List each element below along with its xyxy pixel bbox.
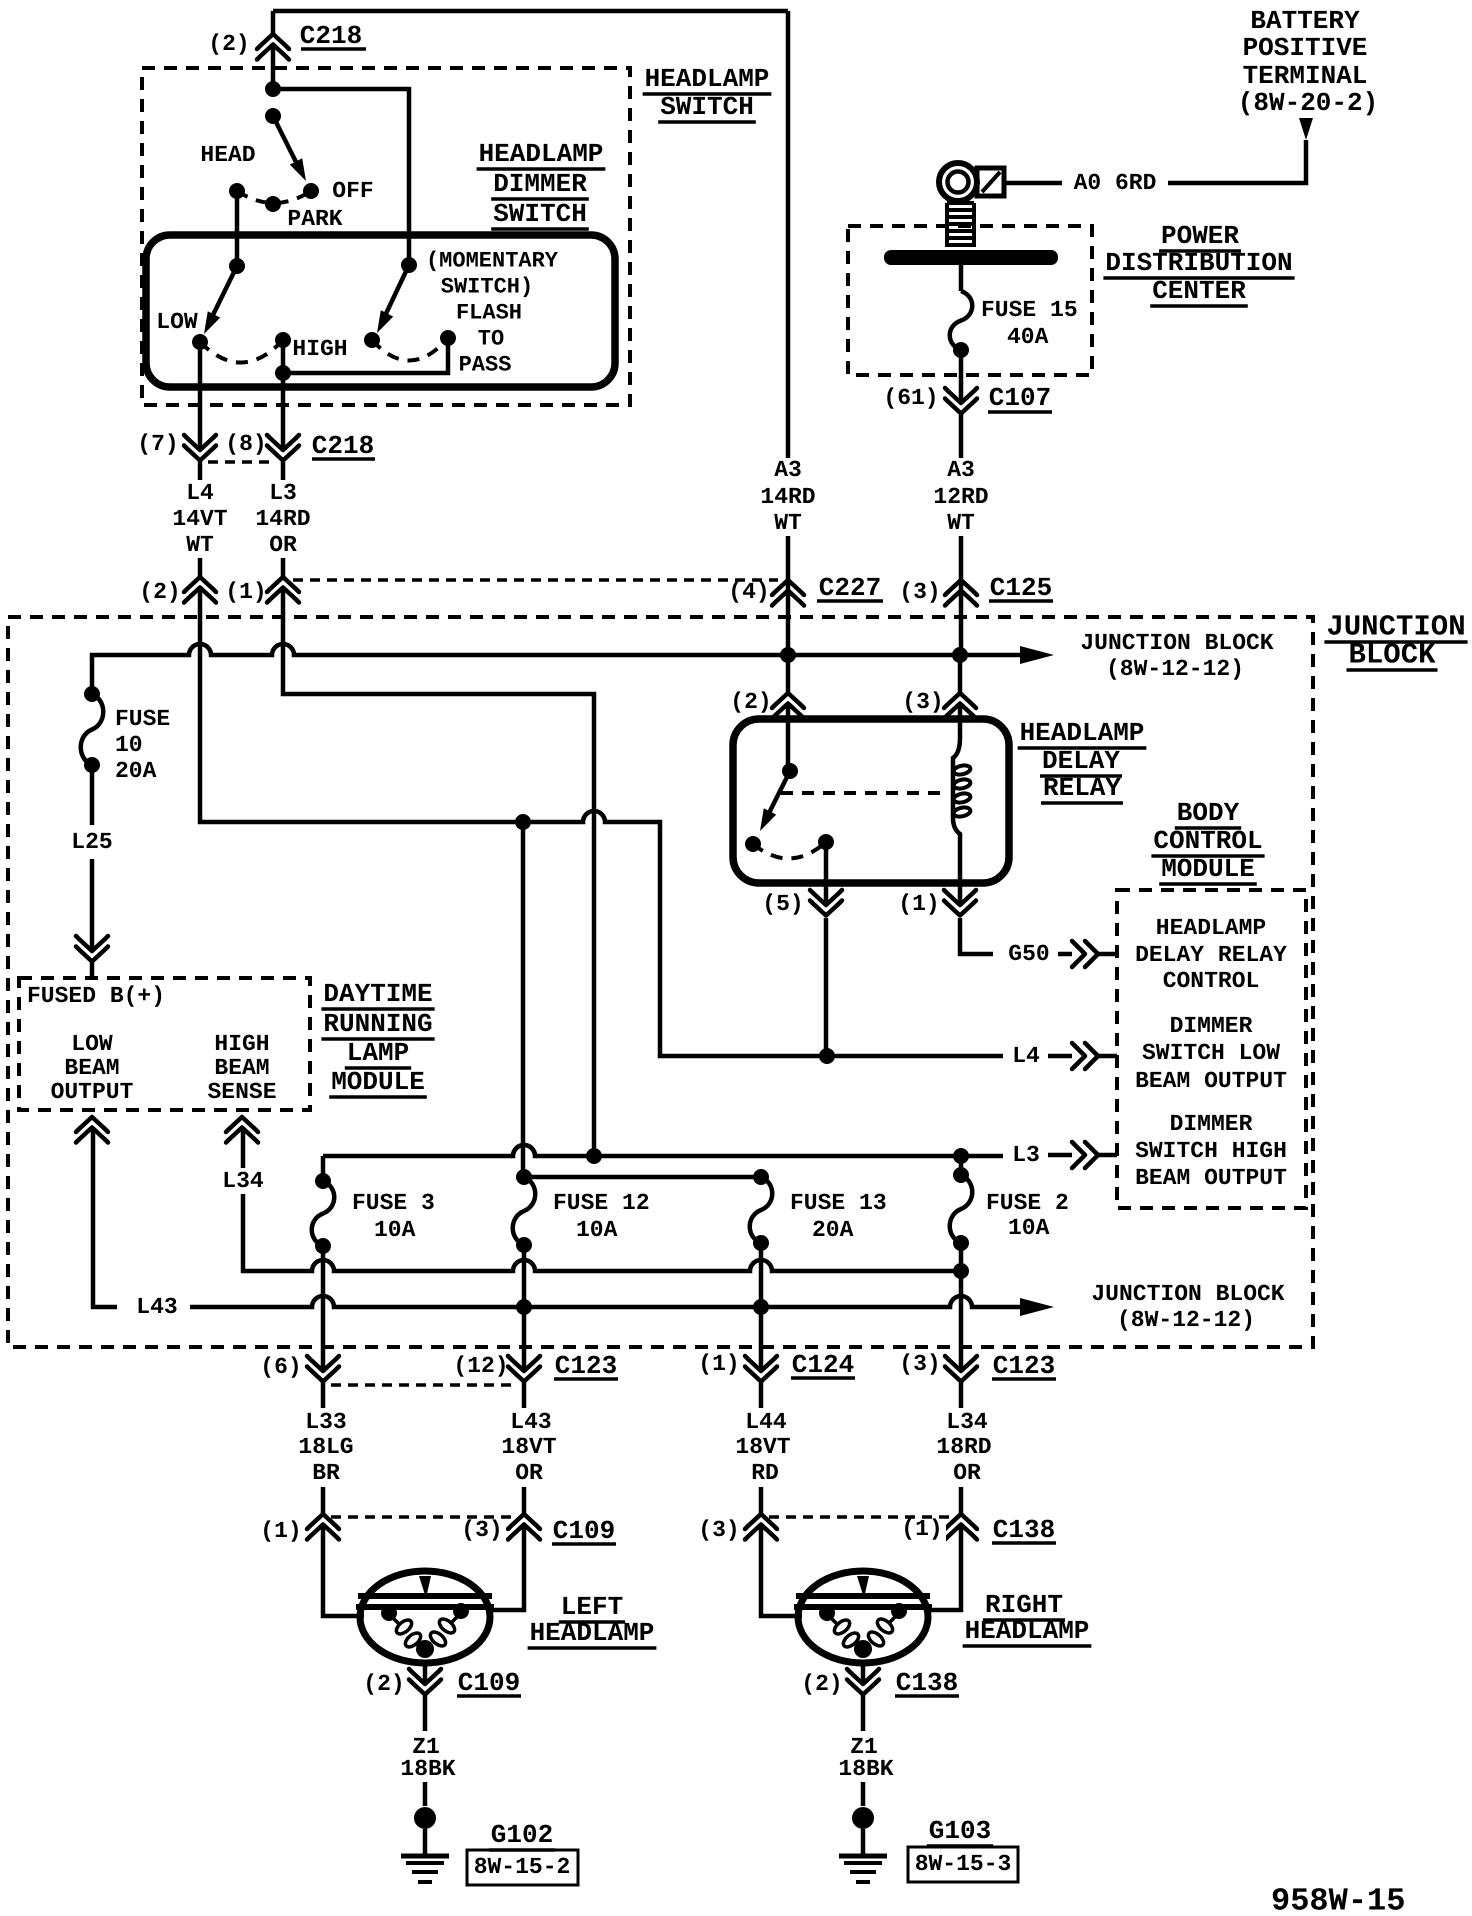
svg-text:18VT: 18VT — [735, 1434, 790, 1460]
svg-text:HEADLAMP: HEADLAMP — [1020, 718, 1145, 748]
connector (1) from relay — [958, 883, 963, 905]
svg-text:DELAY RELAY: DELAY RELAY — [1135, 942, 1287, 968]
connector (2) to relay — [772, 693, 804, 708]
contact OFF — [303, 183, 319, 199]
wire: C109(1) to left headlamp — [323, 1525, 364, 1616]
svg-text:A3: A3 — [947, 457, 975, 483]
svg-text:14RD: 14RD — [255, 506, 310, 532]
terminal tab — [977, 168, 1004, 196]
wire: fuse12-fuse13 top link — [524, 1175, 761, 1180]
contact PARK — [265, 196, 281, 212]
svg-text:G50: G50 — [1008, 941, 1049, 967]
fuse F10 20A — [81, 694, 104, 765]
svg-text:(5): (5) — [762, 891, 803, 917]
svg-text:12RD: 12RD — [933, 484, 988, 510]
svg-text:FUSE 2: FUSE 2 — [986, 1190, 1069, 1216]
svg-text:L43: L43 — [510, 1409, 551, 1435]
wire: C138(3) to right headlamp — [761, 1525, 802, 1616]
wire: A3 12RD WT — [959, 414, 964, 458]
svg-text:8W-15-3: 8W-15-3 — [915, 1851, 1012, 1877]
wire: relay coil feed (3) — [958, 655, 963, 693]
svg-text:DIMMER: DIMMER — [1170, 1013, 1253, 1039]
wire: L34 high beam sense run — [243, 1130, 961, 1271]
wire: fuse2 stub — [959, 1156, 964, 1175]
svg-text:SWITCH HIGH: SWITCH HIGH — [1135, 1138, 1287, 1164]
relay dashed contact arc — [753, 842, 826, 859]
dashed travel arc HEAD-PARK-OFF — [237, 191, 311, 203]
svg-text:CENTER: CENTER — [1152, 276, 1246, 306]
daytime running lamp module dashed box — [19, 978, 310, 1110]
node: L43 / fuse13 bottom — [753, 1299, 769, 1315]
svg-text:RUNNING: RUNNING — [323, 1009, 432, 1039]
svg-text:L33: L33 — [305, 1409, 346, 1435]
svg-text:DISTRIBUTION: DISTRIBUTION — [1105, 248, 1292, 278]
svg-text:SENSE: SENSE — [207, 1079, 276, 1105]
svg-text:CONTROL: CONTROL — [1153, 826, 1262, 856]
connector C123 (12) — [508, 1356, 540, 1371]
wire: HIGH to C218 pin 8 — [281, 340, 286, 450]
svg-text:HEADLAMP: HEADLAMP — [965, 1616, 1090, 1646]
relay blade — [766, 771, 790, 819]
svg-text:(1): (1) — [901, 1516, 942, 1542]
contact HEAD — [229, 183, 245, 199]
svg-text:958W-15: 958W-15 — [1271, 1883, 1405, 1916]
wire: branch to momentary switch — [273, 89, 409, 265]
connector C109 (3) — [508, 1514, 540, 1529]
body control module dashed box — [1117, 890, 1306, 1208]
svg-text:(2): (2) — [363, 1671, 404, 1697]
momentary blade — [382, 265, 409, 322]
svg-text:(1): (1) — [260, 1518, 301, 1544]
svg-text:JUNCTION BLOCK: JUNCTION BLOCK — [1080, 630, 1273, 656]
svg-text:DAYTIME: DAYTIME — [323, 979, 432, 1009]
svg-text:(6): (6) — [260, 1354, 301, 1380]
svg-text:40A: 40A — [1007, 324, 1049, 350]
wire: fuse2 to C123 — [959, 1243, 964, 1371]
svg-text:BLOCK: BLOCK — [1348, 639, 1436, 672]
fuse F15 40A — [950, 291, 973, 350]
node: L3 bus / fuse2 — [953, 1148, 969, 1164]
svg-text:10: 10 — [115, 732, 143, 758]
svg-text:LOW: LOW — [156, 309, 198, 335]
dimmer switch rounded box — [146, 235, 615, 387]
terminal stud threads — [947, 201, 974, 205]
connector C123 (3) — [945, 1356, 977, 1371]
svg-text:BODY: BODY — [1177, 798, 1240, 828]
wire L3 label segment — [281, 462, 286, 480]
svg-text:C218: C218 — [300, 21, 362, 51]
svg-text:(8): (8) — [225, 431, 266, 457]
dashed connector link (1)-(4) — [293, 578, 778, 582]
wire L43 18VT OR — [522, 1382, 527, 1408]
wire L4 label segment — [198, 462, 203, 480]
headlamp bulb at x=863 — [798, 1571, 928, 1663]
svg-text:C218: C218 — [312, 431, 374, 461]
svg-text:(8W-12-12): (8W-12-12) — [1106, 656, 1244, 682]
svg-text:L43: L43 — [136, 1294, 177, 1320]
contact LOW — [192, 334, 208, 350]
fuse F2 10A — [950, 1175, 973, 1243]
svg-text:MODULE: MODULE — [1161, 854, 1255, 884]
momentary left contact — [364, 332, 380, 348]
ground symbol G102 — [401, 1854, 449, 1859]
wire: A3 14RD WT drop — [786, 11, 791, 458]
contact FLASH TO PASS — [440, 330, 456, 346]
node: L3 bus / switch run — [586, 1148, 602, 1164]
wire: fuse12 feed drop — [521, 822, 526, 1177]
junction block feed bus — [92, 644, 1020, 694]
svg-text:C107: C107 — [989, 383, 1051, 413]
connector C138 (2) — [847, 1669, 879, 1684]
svg-text:DELAY: DELAY — [1042, 746, 1120, 776]
svg-text:(61): (61) — [883, 385, 938, 411]
svg-text:(MOMENTARY: (MOMENTARY — [426, 249, 559, 274]
svg-text:(1): (1) — [898, 891, 939, 917]
connector C109 (1) — [307, 1514, 339, 1529]
svg-text:JUNCTION BLOCK: JUNCTION BLOCK — [1091, 1281, 1284, 1307]
wire: top bus from connector C218 to A3 wire — [273, 9, 788, 14]
svg-text:(1): (1) — [698, 1351, 739, 1377]
connector C125 (3) — [945, 580, 977, 595]
svg-text:(2): (2) — [208, 31, 249, 57]
svg-text:L25: L25 — [71, 829, 112, 855]
contact HIGH — [275, 332, 291, 348]
svg-text:(3): (3) — [461, 1517, 502, 1543]
wire: G50 to BCM — [960, 918, 993, 954]
svg-text:BATTERY: BATTERY — [1250, 6, 1360, 36]
dashed travel arc momentary — [372, 338, 448, 361]
wire: fuse13 to C124 — [759, 1243, 764, 1371]
svg-text:BEAM OUTPUT: BEAM OUTPUT — [1135, 1165, 1287, 1191]
svg-text:SWITCH: SWITCH — [660, 92, 754, 122]
wire: relay connector (2) drop — [786, 655, 791, 693]
relay coil — [953, 719, 960, 883]
svg-text:TO: TO — [478, 327, 504, 352]
fuse F3 10A — [312, 1181, 335, 1246]
svg-text:(8W-20-2): (8W-20-2) — [1238, 88, 1378, 118]
svg-text:10A: 10A — [374, 1217, 416, 1243]
connector C138 (3) — [745, 1514, 777, 1529]
wire L33 18LG BR — [321, 1382, 326, 1408]
wire: relay (5) to L4 line — [824, 918, 829, 1056]
relay actuator dashed link — [781, 791, 944, 795]
connector C218 bottom — [184, 435, 216, 450]
wire: high beam bus — [323, 1145, 535, 1181]
wire: HEAD contact to dimmer pivot — [235, 191, 240, 266]
node: switch feed junction — [265, 81, 281, 97]
svg-text:HIGH: HIGH — [292, 336, 347, 362]
svg-text:FLASH: FLASH — [456, 301, 522, 326]
svg-text:18BK: 18BK — [838, 1756, 893, 1782]
svg-text:8W-15-2: 8W-15-2 — [474, 1854, 571, 1880]
svg-text:SWITCH): SWITCH) — [441, 275, 533, 300]
ground symbol G103 — [839, 1854, 887, 1859]
svg-text:(12): (12) — [453, 1353, 508, 1379]
svg-text:(3): (3) — [902, 689, 943, 715]
wire Z1 18BK (C138) — [861, 1695, 866, 1731]
svg-text:FUSED B(+): FUSED B(+) — [27, 983, 165, 1009]
svg-text:PASS: PASS — [459, 353, 512, 378]
svg-text:OR: OR — [953, 1460, 981, 1486]
svg-text:POSITIVE: POSITIVE — [1243, 33, 1368, 63]
svg-text:20A: 20A — [115, 758, 157, 784]
relay common contact — [786, 719, 791, 771]
svg-text:C227: C227 — [819, 573, 881, 603]
svg-text:A0 6RD: A0 6RD — [1074, 170, 1157, 196]
svg-text:(2): (2) — [801, 1671, 842, 1697]
svg-text:DIMMER: DIMMER — [493, 169, 587, 199]
svg-text:10A: 10A — [576, 1217, 618, 1243]
svg-text:(1): (1) — [225, 579, 266, 605]
connector C124 (1) — [745, 1356, 777, 1371]
headlamp switch dashed box — [142, 68, 630, 405]
wire: fuse12 to C123 — [522, 1245, 527, 1371]
svg-text:18RD: 18RD — [936, 1434, 991, 1460]
svg-text:C138: C138 — [993, 1515, 1055, 1545]
svg-text:20A: 20A — [812, 1217, 854, 1243]
relay NC contact — [745, 836, 761, 852]
svg-text:OUTPUT: OUTPUT — [51, 1079, 134, 1105]
svg-text:(2): (2) — [139, 579, 180, 605]
node: HIGH to flash-to-pass — [275, 365, 291, 381]
svg-text:BEAM OUTPUT: BEAM OUTPUT — [1135, 1068, 1287, 1094]
power distribution center dashed box — [848, 226, 1092, 375]
svg-text:L4: L4 — [1012, 1043, 1040, 1069]
svg-text:L3: L3 — [269, 480, 297, 506]
svg-text:FUSE: FUSE — [115, 706, 170, 732]
svg-text:OR: OR — [515, 1460, 543, 1486]
svg-text:C125: C125 — [990, 573, 1052, 603]
svg-text:L3: L3 — [1012, 1142, 1040, 1168]
svg-text:L44: L44 — [745, 1409, 787, 1435]
svg-text:L34: L34 — [946, 1409, 988, 1435]
dimmer blade (points to LOW) — [209, 266, 237, 323]
wire: C138 ground drop — [861, 1663, 866, 1684]
svg-text:PARK: PARK — [287, 206, 342, 232]
svg-text:RELAY: RELAY — [1043, 773, 1121, 803]
svg-text:LOW: LOW — [71, 1031, 113, 1057]
svg-text:OFF: OFF — [332, 178, 373, 204]
svg-text:HEADLAMP: HEADLAMP — [530, 1618, 655, 1648]
svg-text:(3): (3) — [899, 1351, 940, 1377]
svg-text:POWER: POWER — [1161, 221, 1239, 251]
svg-text:(3): (3) — [899, 579, 940, 605]
ground splice G102 — [414, 1807, 436, 1829]
connector C138 (1) — [945, 1514, 977, 1529]
node: L43 / fuse12 bottom — [516, 1299, 532, 1315]
svg-text:HEADLAMP: HEADLAMP — [1156, 915, 1266, 941]
PDC bus bar — [884, 250, 1058, 265]
svg-text:18VT: 18VT — [501, 1434, 556, 1460]
connector C218 (2) top — [257, 34, 289, 49]
dashed travel arc LOW-HIGH — [200, 340, 283, 363]
connector (1) into junction block — [267, 577, 299, 592]
svg-text:(4): (4) — [728, 579, 769, 605]
svg-text:FUSE 13: FUSE 13 — [790, 1190, 887, 1216]
svg-text:RD: RD — [751, 1460, 779, 1486]
node: bus / A3 12RD — [952, 647, 968, 663]
svg-text:(2): (2) — [730, 689, 771, 715]
svg-text:A3: A3 — [774, 457, 802, 483]
svg-text:WT: WT — [774, 510, 802, 536]
svg-text:C109: C109 — [553, 1516, 615, 1546]
wire: C218 to headlamp switch — [271, 47, 276, 89]
svg-text:C138: C138 — [896, 1668, 958, 1698]
svg-text:HEADLAMP: HEADLAMP — [645, 64, 770, 94]
node: L4 / fuse12 feed — [515, 814, 531, 830]
svg-text:(8W-12-12): (8W-12-12) — [1117, 1307, 1255, 1333]
svg-text:C109: C109 — [458, 1668, 520, 1698]
connector (5) from relay — [824, 842, 829, 905]
svg-text:BEAM: BEAM — [214, 1055, 269, 1081]
svg-text:CONTROL: CONTROL — [1163, 968, 1260, 994]
svg-text:WT: WT — [186, 532, 214, 558]
svg-text:G103: G103 — [929, 1816, 991, 1846]
svg-text:LAMP: LAMP — [347, 1038, 409, 1068]
connector: DRL module feed — [76, 936, 108, 951]
wire: fuse3 to C123 — [321, 1246, 326, 1371]
momentary switch pivot — [401, 257, 417, 273]
connector C107 (61) — [945, 388, 977, 403]
relay NO contact — [818, 834, 834, 850]
node: L34 / fuse2 bottom — [953, 1263, 969, 1279]
svg-text:FUSE 3: FUSE 3 — [352, 1190, 435, 1216]
wire L34 18RD OR — [959, 1382, 964, 1408]
svg-text:C123: C123 — [555, 1351, 617, 1381]
connector C123 (6) — [307, 1356, 339, 1371]
wire: C138(1) to right headlamp — [926, 1525, 961, 1610]
connector: high beam sense — [226, 1117, 258, 1132]
svg-text:OR: OR — [269, 532, 297, 558]
fuse F12 10A — [513, 1177, 536, 1245]
wire: L3 high beam run — [283, 590, 594, 1156]
svg-text:(3): (3) — [698, 1517, 739, 1543]
svg-text:MODULE: MODULE — [331, 1067, 425, 1097]
svg-text:FUSE 12: FUSE 12 — [553, 1190, 650, 1216]
wire: C109 ground drop — [423, 1663, 428, 1684]
connector: low beam output — [76, 1117, 108, 1132]
svg-text:18LG: 18LG — [298, 1434, 353, 1460]
svg-text:DIMMER: DIMMER — [1170, 1111, 1253, 1137]
node: L4 / relay NO — [819, 1048, 835, 1064]
wire: C109(3) to left headlamp — [488, 1525, 524, 1610]
node: bus / A3 14RD — [780, 647, 796, 663]
svg-text:18BK: 18BK — [400, 1756, 455, 1782]
wire L25 — [90, 765, 95, 825]
junction block dashed box — [8, 617, 1313, 1347]
svg-text:10A: 10A — [1008, 1215, 1050, 1241]
wire: bus bar to fuse 15 — [959, 265, 964, 291]
svg-text:14VT: 14VT — [172, 506, 227, 532]
svg-text:HEADLAMP: HEADLAMP — [479, 139, 604, 169]
svg-text:G102: G102 — [491, 1820, 553, 1850]
headlamp switch rotary: pivot — [265, 108, 281, 124]
headlamp bulb at x=425 — [360, 1571, 490, 1663]
svg-text:C123: C123 — [993, 1351, 1055, 1381]
wire: battery feed A0 6RD — [1168, 140, 1306, 183]
svg-text:L34: L34 — [222, 1168, 264, 1194]
svg-text:14RD: 14RD — [760, 484, 815, 510]
wire: fuse 15 to C107 — [959, 350, 964, 403]
svg-text:WT: WT — [947, 510, 975, 536]
ground splice G103 — [852, 1807, 874, 1829]
wire Z1 18BK (C109) — [423, 1695, 428, 1731]
svg-text:BEAM: BEAM — [64, 1055, 119, 1081]
connector (3) to relay — [944, 693, 976, 708]
headlamp switch blade (points to OFF) — [273, 116, 300, 170]
dimmer pivot — [229, 258, 245, 274]
wire L44 18VT RD — [759, 1382, 764, 1408]
wire: L4 low beam run — [200, 590, 1003, 1056]
connector C227 (4) — [772, 580, 804, 595]
wire: L43 low beam run — [93, 1130, 117, 1307]
connector (2) into junction block — [184, 577, 216, 592]
connector C109 (2) — [409, 1669, 441, 1684]
svg-text:SWITCH: SWITCH — [493, 199, 587, 229]
svg-text:BR: BR — [312, 1460, 340, 1486]
svg-text:C124: C124 — [792, 1350, 854, 1380]
svg-text:(7): (7) — [137, 431, 178, 457]
svg-text:L4: L4 — [186, 480, 214, 506]
svg-text:HIGH: HIGH — [214, 1031, 269, 1057]
wire: flash-to-pass link — [283, 338, 448, 373]
fuse F13 20A — [750, 1177, 773, 1243]
battery eyelet terminal — [939, 163, 977, 201]
svg-text:HEAD: HEAD — [200, 142, 255, 168]
svg-text:FUSE 15: FUSE 15 — [981, 297, 1078, 323]
svg-text:SWITCH LOW: SWITCH LOW — [1142, 1040, 1280, 1066]
svg-text:TERMINAL: TERMINAL — [1243, 61, 1368, 91]
headlamp delay relay box — [733, 719, 1009, 883]
wire: LOW to C218 pin 7 — [198, 342, 203, 450]
